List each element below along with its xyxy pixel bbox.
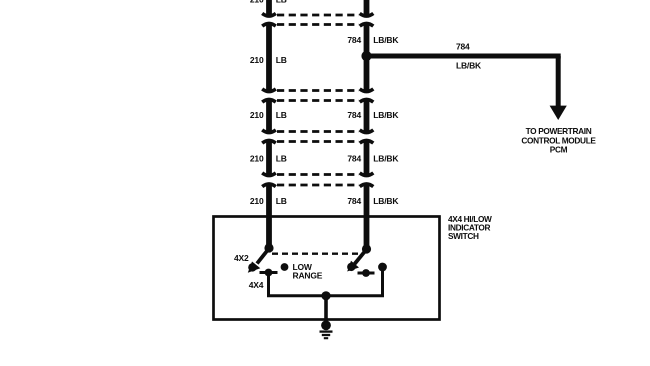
label 4X4 HI/LOW INDICATOR SWITCH <box>448 214 492 241</box>
svg-text:LB/BK: LB/BK <box>456 61 482 71</box>
connector C2 dashed line lower <box>277 99 359 102</box>
wire 210 LB segment A <box>266 24 272 91</box>
wire 210 LB top stub <box>266 0 272 16</box>
svg-text:LB: LB <box>276 55 287 65</box>
wire 210 LB segment C <box>266 141 272 175</box>
svg-text:LB/BK: LB/BK <box>373 154 399 164</box>
left switch arm <box>257 249 269 264</box>
svg-text:4X4: 4X4 <box>249 280 264 290</box>
wire 784 LB/BK top stub <box>364 0 370 16</box>
label TO POWERTRAIN CONTROL MODULE PCM <box>521 126 596 155</box>
svg-text:LB/BK: LB/BK <box>373 110 399 120</box>
connector C1 left upper half <box>262 13 276 16</box>
svg-text:210: 210 <box>250 110 264 120</box>
connector C3 left upper half <box>262 130 276 133</box>
node right switch pivot <box>362 244 371 253</box>
connector C4 right upper half <box>360 173 374 176</box>
svg-text:4X2: 4X2 <box>234 253 249 263</box>
connector C3 right upper half <box>360 130 374 133</box>
connector C2 left lower half <box>262 100 276 103</box>
svg-text:210: 210 <box>250 154 264 164</box>
wire 784 LB/BK segment B <box>364 100 370 131</box>
connector C3 right lower half <box>360 141 374 144</box>
connector C4 left upper half <box>262 173 276 176</box>
node rail junction <box>321 291 330 300</box>
svg-text:RANGE: RANGE <box>293 271 323 281</box>
connector C2 dashed line upper <box>277 89 359 92</box>
svg-text:210: 210 <box>250 55 264 65</box>
right switch arm arrowhead <box>347 263 355 271</box>
connector C4 right lower half <box>360 184 374 187</box>
connector C1 dashed line upper <box>277 14 359 17</box>
svg-text:TO POWERTRAIN: TO POWERTRAIN <box>526 126 592 136</box>
svg-text:PCM: PCM <box>550 145 568 155</box>
svg-text:LB/BK: LB/BK <box>373 35 399 45</box>
svg-text:784: 784 <box>456 42 470 52</box>
svg-text:784: 784 <box>347 196 361 206</box>
node right middle contact <box>362 269 370 277</box>
svg-text:784: 784 <box>347 154 361 164</box>
connector C2 left upper half <box>262 89 276 92</box>
wire from 4X4 contact to rail <box>267 273 270 296</box>
connector C2 right lower half <box>360 100 374 103</box>
wire vertical drop to PCM arrow <box>556 56 561 107</box>
wire 210 LB segment B <box>266 100 272 131</box>
connector C4 dashed line upper <box>277 173 359 176</box>
wire 784 LB/BK segment A <box>364 24 370 91</box>
node right outer contact <box>378 263 387 272</box>
contact bar left <box>260 271 278 274</box>
connector C3 left lower half <box>262 141 276 144</box>
contact bar right <box>358 272 375 275</box>
right switch arm <box>355 250 367 264</box>
svg-text:210: 210 <box>250 0 264 5</box>
node ground dot <box>321 320 331 330</box>
svg-text:LB: LB <box>276 196 287 206</box>
svg-text:LB: LB <box>276 110 287 120</box>
label LOW RANGE <box>293 262 323 281</box>
connector C4 left lower half <box>262 184 276 187</box>
svg-text:LB: LB <box>276 0 287 5</box>
connector C1 right lower half <box>360 24 374 27</box>
svg-text:LB/BK: LB/BK <box>373 196 399 206</box>
wire bottom rail <box>267 294 384 297</box>
connector C3 dashed line lower <box>277 140 359 143</box>
bullet low range <box>281 263 289 271</box>
wire 210 LB into switch box <box>266 185 272 249</box>
svg-text:SWITCH: SWITCH <box>448 231 479 241</box>
svg-text:LB: LB <box>276 154 287 164</box>
wire 784 LB/BK segment C <box>364 141 370 175</box>
connector C1 right upper half <box>360 13 374 16</box>
connector C2 right upper half <box>360 89 374 92</box>
ground symbol <box>320 332 333 339</box>
wire 784 LB/BK into switch box <box>364 185 370 250</box>
mechanical linkage dashed <box>272 252 358 254</box>
connector C1 dashed line lower <box>277 23 359 26</box>
left switch arm arrowhead <box>248 263 256 271</box>
wire from right outer contact to rail <box>381 267 384 296</box>
connector C4 dashed line lower <box>277 184 359 187</box>
svg-text:784: 784 <box>347 110 361 120</box>
wire 784 LB/BK horizontal to PCM <box>367 54 561 59</box>
node splice junction on 784 wire <box>361 51 371 61</box>
wire to ground <box>324 296 328 325</box>
box 4X4 HI/LOW indicator switch <box>214 217 440 320</box>
connector C3 dashed line upper <box>277 130 359 133</box>
node 4X4 contact left <box>265 269 273 277</box>
node left switch pivot <box>264 243 273 252</box>
connector C1 left lower half <box>262 24 276 27</box>
svg-text:210: 210 <box>250 196 264 206</box>
svg-text:784: 784 <box>347 35 361 45</box>
arrowhead to PCM <box>550 106 567 120</box>
